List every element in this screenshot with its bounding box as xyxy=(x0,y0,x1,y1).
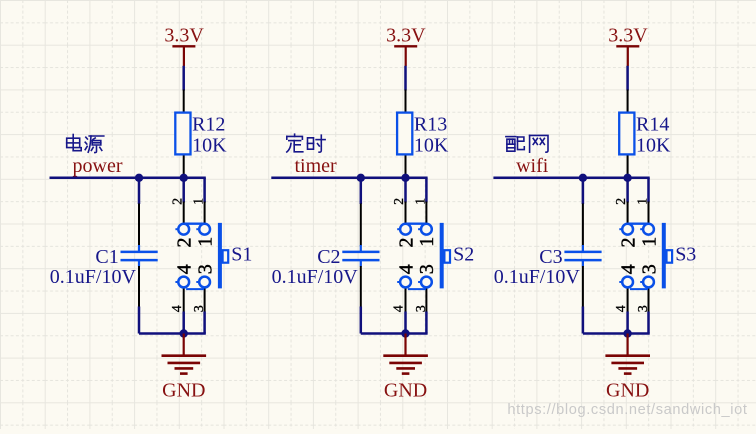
ground GND xyxy=(383,334,428,402)
svg-text:timer: timer xyxy=(295,155,338,177)
power port 3.3V xyxy=(608,25,648,66)
svg-text:2: 2 xyxy=(174,238,196,248)
junction at resistor xyxy=(401,174,409,182)
svg-text:3: 3 xyxy=(416,264,438,274)
capacitor C3 0.1uF/10V xyxy=(494,204,602,308)
svg-text:wifi: wifi xyxy=(516,155,549,177)
svg-text:4: 4 xyxy=(617,264,639,274)
svg-text:4: 4 xyxy=(392,305,407,312)
ground GND xyxy=(162,334,207,402)
svg-text:3.3V: 3.3V xyxy=(386,25,426,47)
junction at GND xyxy=(623,329,631,337)
net label power (chinese) xyxy=(67,135,104,153)
wire horizontal rail (timer net) xyxy=(271,178,427,204)
svg-text:S3: S3 xyxy=(675,244,696,266)
junction at resistor xyxy=(623,174,631,182)
switch S1 pin wires + numbers xyxy=(170,198,207,312)
svg-text:1: 1 xyxy=(636,198,651,205)
svg-text:2: 2 xyxy=(395,238,417,248)
ground GND xyxy=(605,334,650,402)
svg-text:GND: GND xyxy=(384,379,427,401)
svg-text:C1: C1 xyxy=(95,246,118,268)
svg-text:2: 2 xyxy=(170,198,185,205)
wire horizontal rail (wifi net) xyxy=(493,178,649,204)
svg-text:2: 2 xyxy=(614,198,629,205)
wire horizontal rail (power net) xyxy=(50,178,206,204)
wires switch to bottom rail xyxy=(361,312,428,334)
power port 3.3V xyxy=(164,25,204,66)
svg-text:2: 2 xyxy=(617,238,639,248)
switch S3 body xyxy=(617,223,696,289)
svg-text:3: 3 xyxy=(194,264,216,274)
svg-text:4: 4 xyxy=(614,305,629,312)
net label timer (chinese) xyxy=(287,134,325,152)
resistor R12 10K xyxy=(175,90,227,177)
svg-text:GND: GND xyxy=(162,379,205,401)
svg-text:C3: C3 xyxy=(539,246,562,268)
svg-text:C2: C2 xyxy=(317,246,340,268)
junction at cap branch xyxy=(135,174,143,182)
resistor R13 10K xyxy=(397,90,449,177)
svg-text:GND: GND xyxy=(606,379,649,401)
switch S2 body xyxy=(395,223,474,289)
svg-text:R13: R13 xyxy=(414,114,447,136)
svg-text:3: 3 xyxy=(192,305,207,312)
svg-text:R14: R14 xyxy=(636,114,669,136)
resistor R14 10K xyxy=(619,90,671,177)
wire cap to bottom rail xyxy=(360,307,363,334)
junction at cap branch xyxy=(579,174,587,182)
svg-text:1: 1 xyxy=(192,198,207,205)
junction at GND xyxy=(401,329,409,337)
svg-text:R12: R12 xyxy=(192,114,225,136)
wires switch to bottom rail xyxy=(583,312,650,334)
svg-text:4: 4 xyxy=(174,264,196,274)
svg-text:3: 3 xyxy=(414,305,429,312)
svg-text:1: 1 xyxy=(194,237,216,247)
svg-text:1: 1 xyxy=(638,237,660,247)
wire 3.3V to R pin1 xyxy=(182,66,185,91)
capacitor C2 0.1uF/10V xyxy=(272,204,380,308)
svg-text:0.1uF/10V: 0.1uF/10V xyxy=(494,266,581,288)
junction at resistor xyxy=(180,174,188,182)
switch S3 pin wires + numbers xyxy=(614,198,651,312)
wire 3.3V to R pin1 xyxy=(404,66,407,91)
svg-text:4: 4 xyxy=(395,264,417,274)
svg-text:1: 1 xyxy=(416,237,438,247)
capacitor C1 0.1uF/10V xyxy=(50,204,158,308)
switch S2 pin wires + numbers xyxy=(392,198,429,312)
svg-text:3.3V: 3.3V xyxy=(608,25,648,47)
svg-text:10K: 10K xyxy=(636,135,671,157)
wires switch to bottom rail xyxy=(139,312,206,334)
svg-text:S1: S1 xyxy=(231,244,252,266)
wire cap to bottom rail xyxy=(138,307,141,334)
svg-text:3: 3 xyxy=(638,264,660,274)
svg-text:https://blog.csdn.net/sandwich: https://blog.csdn.net/sandwich_iot xyxy=(507,402,747,418)
net label wifi (chinese) xyxy=(506,135,548,152)
svg-text:0.1uF/10V: 0.1uF/10V xyxy=(272,266,359,288)
svg-text:S2: S2 xyxy=(453,244,474,266)
svg-text:2: 2 xyxy=(392,198,407,205)
switch S1 body xyxy=(174,223,253,289)
svg-text:10K: 10K xyxy=(414,135,449,157)
svg-text:power: power xyxy=(73,155,123,177)
wire cap to bottom rail xyxy=(582,307,585,334)
power port 3.3V xyxy=(386,25,426,66)
svg-text:3.3V: 3.3V xyxy=(164,25,204,47)
svg-text:3: 3 xyxy=(636,305,651,312)
junction at cap branch xyxy=(357,174,365,182)
svg-text:0.1uF/10V: 0.1uF/10V xyxy=(50,266,137,288)
svg-text:1: 1 xyxy=(413,198,428,205)
svg-text:4: 4 xyxy=(170,305,185,312)
wire 3.3V to R pin1 xyxy=(626,66,629,91)
junction at GND xyxy=(180,329,188,337)
svg-text:10K: 10K xyxy=(192,135,227,157)
